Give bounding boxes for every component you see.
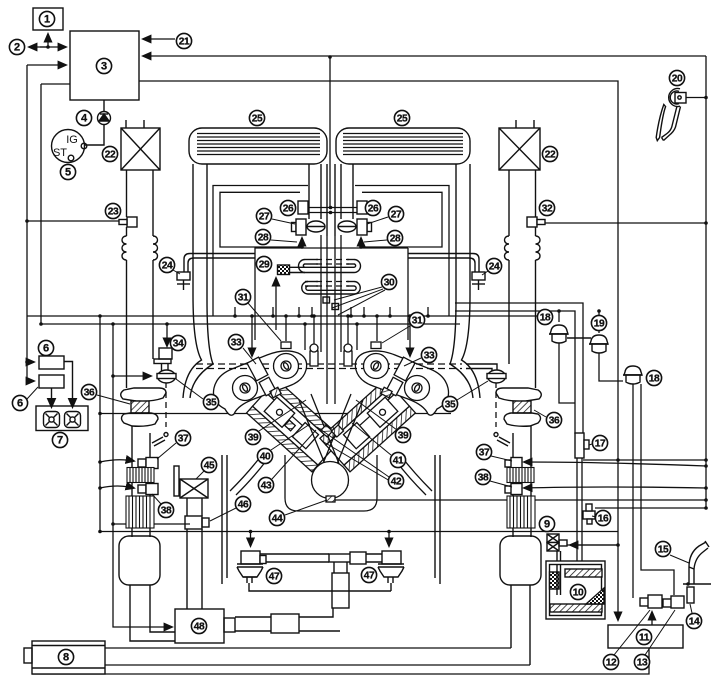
svg-text:18: 18 [540, 313, 551, 324]
svg-text:4: 4 [81, 113, 88, 125]
svg-text:48: 48 [194, 622, 205, 633]
svg-text:33: 33 [424, 351, 435, 362]
svg-text:2: 2 [14, 42, 20, 54]
svg-text:16: 16 [598, 514, 609, 525]
svg-text:41: 41 [393, 456, 404, 467]
svg-text:12: 12 [606, 658, 617, 669]
svg-text:7: 7 [57, 435, 63, 447]
svg-text:11: 11 [639, 633, 650, 644]
svg-text:35: 35 [206, 398, 217, 409]
svg-text:IG: IG [66, 134, 78, 146]
svg-text:1: 1 [44, 14, 50, 26]
svg-text:10: 10 [573, 588, 584, 599]
svg-text:8: 8 [63, 652, 69, 664]
svg-text:ST: ST [53, 147, 67, 159]
svg-text:3: 3 [101, 61, 107, 73]
svg-text:31: 31 [412, 316, 423, 327]
svg-text:27: 27 [391, 210, 402, 221]
svg-text:38: 38 [478, 473, 489, 484]
svg-text:14: 14 [689, 617, 700, 628]
svg-text:24: 24 [162, 261, 173, 272]
svg-text:47: 47 [269, 572, 280, 583]
svg-text:25: 25 [252, 114, 263, 125]
svg-text:31: 31 [238, 293, 249, 304]
svg-text:26: 26 [283, 204, 294, 215]
svg-text:39: 39 [398, 431, 409, 442]
svg-text:33: 33 [231, 338, 242, 349]
svg-text:37: 37 [178, 434, 189, 445]
svg-text:23: 23 [108, 207, 119, 218]
svg-text:39: 39 [248, 433, 259, 444]
svg-text:21: 21 [179, 37, 190, 48]
svg-text:26: 26 [368, 204, 379, 215]
svg-text:27: 27 [259, 212, 270, 223]
svg-text:19: 19 [594, 319, 605, 330]
svg-text:28: 28 [258, 233, 269, 244]
svg-text:44: 44 [272, 514, 283, 525]
svg-text:29: 29 [259, 260, 270, 271]
svg-text:35: 35 [445, 400, 456, 411]
svg-text:15: 15 [658, 545, 669, 556]
svg-text:28: 28 [390, 234, 401, 245]
svg-text:38: 38 [161, 506, 172, 517]
svg-text:43: 43 [261, 481, 272, 492]
svg-text:22: 22 [545, 150, 556, 161]
svg-text:20: 20 [672, 74, 683, 85]
svg-text:37: 37 [479, 448, 490, 459]
svg-text:36: 36 [549, 416, 560, 427]
svg-text:42: 42 [391, 477, 402, 488]
svg-text:24: 24 [489, 262, 500, 273]
svg-text:18: 18 [649, 374, 660, 385]
svg-text:47: 47 [364, 571, 375, 582]
svg-text:17: 17 [595, 439, 606, 450]
svg-text:34: 34 [173, 339, 184, 350]
svg-text:25: 25 [397, 114, 408, 125]
svg-text:22: 22 [105, 150, 116, 161]
svg-text:6: 6 [17, 398, 23, 410]
svg-text:30: 30 [384, 278, 395, 289]
svg-text:46: 46 [238, 500, 249, 511]
svg-text:13: 13 [637, 658, 648, 669]
svg-text:45: 45 [204, 461, 215, 472]
svg-text:36: 36 [84, 388, 95, 399]
svg-text:40: 40 [260, 452, 271, 463]
svg-text:9: 9 [544, 519, 550, 531]
svg-text:5: 5 [65, 167, 71, 179]
svg-text:32: 32 [542, 204, 553, 215]
svg-text:6: 6 [43, 343, 49, 355]
